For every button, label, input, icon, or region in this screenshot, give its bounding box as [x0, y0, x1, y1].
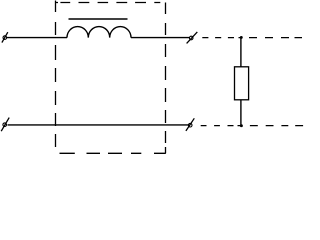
terminal (input, top-left): slash: [2, 32, 8, 42]
dashed wire: top connection to load: [202, 37, 302, 39]
junction dot (top of load): [240, 36, 243, 39]
wire: bottom return wire: [8, 124, 189, 126]
wire: top input wire (left segment): [7, 37, 67, 39]
junction dot (bottom of load): [240, 124, 243, 127]
inductor L1 core bar: [69, 18, 128, 20]
dashed enclosure box, left edge: [55, 1, 57, 148]
terminal (output, bottom-right): circle: [188, 123, 192, 127]
dashed enclosure box, right edge: [165, 3, 167, 154]
inductor L1 winding (3 humps): [67, 27, 131, 38]
wire: load branch upper lead: [240, 38, 242, 67]
dashed wire: bottom connection to load: [201, 125, 303, 127]
dashed enclosure box, bottom edge: [60, 152, 166, 154]
terminal (input, top-left): circle: [3, 36, 7, 40]
terminal (input, bottom-left): slash: [1, 118, 9, 132]
terminal (output, top-right): slash: [187, 32, 198, 44]
dashed enclosure box, top edge: [55, 2, 160, 4]
terminal (input, bottom-left): circle: [3, 123, 7, 127]
terminal (output, top-right): circle: [189, 36, 193, 40]
wire: load branch lower lead: [240, 100, 242, 126]
terminal (output, bottom-right): slash: [186, 118, 194, 131]
resistor R (load) body: [235, 67, 249, 100]
wire: top wire (right segment to output terminal): [131, 37, 189, 39]
